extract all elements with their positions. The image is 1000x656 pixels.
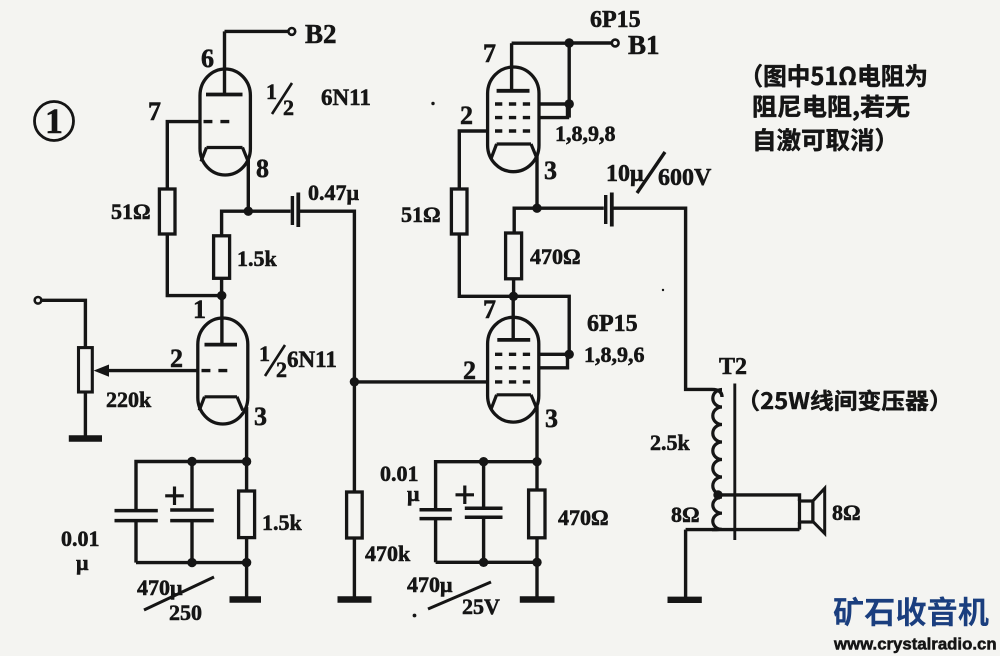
wire cathode rail V4 — [436, 462, 537, 508]
capacitor C3 470u electrolytic — [170, 462, 214, 563]
svg-text:470μ: 470μ — [407, 572, 453, 597]
label T2 — [719, 354, 747, 380]
wire bottom rail V4 network — [436, 561, 537, 564]
wire node A to C1 — [248, 209, 290, 212]
wire T2 bottom to ground G5 — [684, 530, 687, 597]
annotation chinese line3 — [756, 128, 883, 151]
svg-text:25V: 25V — [462, 594, 500, 619]
svg-text:3: 3 — [254, 402, 267, 431]
V4 pin 2 — [463, 356, 476, 385]
svg-text:2: 2 — [283, 95, 294, 120]
input terminal — [35, 297, 42, 304]
svg-text:6N11: 6N11 — [287, 347, 337, 372]
wire cathode rail V2 — [136, 462, 247, 510]
wire node C to C5 — [537, 206, 604, 209]
scan speckles — [413, 102, 665, 618]
V4 pin 3 lead — [535, 406, 538, 462]
svg-text:0.01: 0.01 — [61, 526, 100, 551]
label B1 — [628, 30, 660, 60]
VR1 wiper arrow — [95, 365, 198, 376]
transformer T2 core — [733, 384, 736, 541]
svg-text:2: 2 — [170, 344, 183, 373]
tube V2 1/2 6N11 envelope — [198, 318, 248, 424]
wire V3 pin2 to R4 — [459, 131, 487, 188]
figure number circle 1 — [35, 102, 74, 141]
svg-text:7: 7 — [483, 295, 496, 324]
label 1/2 6N11 for V2 — [259, 341, 337, 382]
V4 pin 3 — [545, 404, 558, 433]
label C7 470u/25V — [407, 572, 500, 619]
V4 screen grid row1 — [495, 353, 568, 356]
label R2 1.5k — [237, 246, 278, 271]
watermark logo chinese — [834, 596, 989, 626]
annotation chinese line2 — [754, 95, 910, 121]
label R1 51ohm — [111, 199, 151, 224]
V3 control grid row3 (pin 2) — [495, 129, 530, 132]
label 6P15 for V4 — [587, 311, 638, 337]
V2 cathode — [199, 397, 243, 411]
V1 cathode — [201, 148, 248, 162]
svg-text:470Ω: 470Ω — [530, 244, 581, 269]
capacitor C2 0.01u — [115, 511, 158, 563]
label R7 470ohm — [558, 505, 609, 530]
tube V4 6P15 envelope — [488, 317, 539, 422]
svg-text:B1: B1 — [628, 30, 660, 60]
wire plate V1 to B2 — [225, 30, 290, 33]
tube V1 1/2 6N11 envelope — [200, 69, 250, 175]
V3 pin 3 lead — [535, 155, 538, 208]
capacitor C6 0.01u — [420, 510, 452, 563]
terminal B2 — [288, 28, 295, 35]
resistor R4 51ohm — [451, 189, 467, 234]
svg-text:1.5k: 1.5k — [262, 510, 303, 535]
svg-text:2: 2 — [276, 357, 287, 382]
wire coupling to V4 grid — [354, 380, 487, 383]
wire VR1 to ground — [84, 392, 87, 436]
resistor R1 51ohm — [159, 189, 175, 234]
wire T2 bottom rail — [686, 522, 800, 530]
V4 screen grid row2 — [495, 354, 568, 368]
wire R2 bottom to node B — [220, 278, 223, 295]
svg-text:1: 1 — [45, 101, 63, 141]
V2 pin 2 — [170, 344, 183, 373]
svg-text:10μ: 10μ — [606, 161, 644, 187]
svg-text:3: 3 — [545, 404, 558, 433]
potentiometer VR1 220k body — [79, 348, 93, 392]
V2 pin 3 — [254, 402, 267, 431]
C7 plus sign — [456, 486, 475, 505]
V3 pin 3 — [544, 156, 557, 185]
wire node D to V4 plate rail — [513, 296, 569, 354]
resistor R7 470ohm — [529, 462, 545, 563]
wire V3 cathode node C rail — [514, 208, 537, 233]
svg-text:600V: 600V — [658, 165, 712, 191]
V3 screen grid row1 — [495, 102, 568, 105]
V3 pin 2 — [460, 101, 473, 130]
label V4 pins 1,8,9,6 — [584, 342, 645, 367]
label R3 1.5k — [262, 510, 303, 535]
svg-text:1: 1 — [266, 79, 277, 104]
label VR1 220k — [106, 387, 152, 412]
label R4 51ohm — [401, 202, 441, 227]
wire node to terminal B1 — [569, 41, 612, 44]
V4 control grid row3 (pin 2) — [495, 380, 530, 383]
V1 pin 8 lead — [247, 158, 250, 209]
svg-text:6P15: 6P15 — [590, 7, 641, 33]
wire R4 bottom to lower rail — [459, 234, 513, 296]
wire input to VR1 — [42, 300, 86, 347]
capacitor C1 0.47u — [292, 193, 298, 228]
label R5 470ohm — [530, 244, 581, 269]
wire node B to V2 plate — [220, 296, 223, 344]
wire V3 plate to B1 node — [512, 42, 570, 45]
V1 pin 8 — [256, 154, 269, 183]
annotation chinese T2 (25W line transformer) — [752, 390, 937, 412]
svg-text:7: 7 — [148, 97, 161, 126]
V3 plate — [497, 43, 530, 91]
ground G2 — [230, 596, 262, 602]
watermark url — [833, 635, 997, 654]
label R6 470k — [365, 541, 411, 566]
wire to ground G2 — [245, 563, 248, 597]
label C2 0.01u — [61, 526, 100, 575]
ground G5 — [668, 597, 702, 603]
resistor R3 1.5k — [239, 462, 255, 563]
svg-text:250: 250 — [169, 600, 202, 625]
svg-text:1: 1 — [259, 341, 270, 366]
label C5 10u/600V — [606, 152, 712, 193]
label C3 470u/250 — [137, 575, 214, 625]
V2 pin 3 lead — [245, 407, 248, 462]
wire T2 tap to speaker — [718, 495, 800, 501]
wire B1 node down to screen — [568, 43, 571, 117]
V3 cathode — [491, 144, 537, 158]
V4 pin 7 — [483, 295, 496, 324]
wire C5 to T2 — [614, 208, 713, 389]
svg-text:6: 6 — [201, 44, 214, 73]
capacitor C7 470u electrolytic — [465, 462, 503, 563]
label 1/2 6N11 for V1 — [266, 79, 371, 120]
svg-text:51Ω: 51Ω — [111, 199, 151, 224]
svg-text:470Ω: 470Ω — [558, 505, 609, 530]
label 8ohm speaker — [832, 500, 861, 525]
ground G3 — [338, 596, 372, 602]
svg-text:8: 8 — [256, 154, 269, 183]
svg-text:470k: 470k — [365, 541, 411, 566]
V1 grid (pin 7) — [204, 120, 230, 123]
svg-text:8Ω: 8Ω — [671, 502, 700, 527]
label T2 2.5k — [650, 430, 691, 455]
svg-text:2.5k: 2.5k — [650, 430, 691, 455]
svg-text:1,8,9,8: 1,8,9,8 — [555, 121, 616, 146]
label 8ohm tap — [671, 502, 700, 527]
wire to ground G4 — [535, 562, 538, 597]
wire C1 to coupling line — [300, 211, 354, 382]
svg-text:51Ω: 51Ω — [401, 202, 441, 227]
V2 plate — [205, 343, 238, 347]
C3 plus sign — [165, 487, 184, 506]
svg-text:T2: T2 — [719, 354, 747, 380]
V2 pin 1 — [193, 295, 206, 324]
svg-text:3: 3 — [544, 156, 557, 185]
transformer T2 primary winding 2.5k — [712, 389, 722, 494]
svg-text:2: 2 — [460, 101, 473, 130]
resistor R5 470ohm — [506, 233, 522, 279]
ground VR1 — [69, 435, 102, 441]
svg-text:1,8,9,6: 1,8,9,6 — [584, 342, 645, 367]
V4 plate — [497, 296, 530, 340]
speaker driver box — [800, 501, 813, 522]
resistor R2 1.5k — [214, 236, 230, 278]
V4 cathode — [491, 395, 537, 409]
V3 screen grid row2 — [495, 104, 568, 118]
label C6 0.01u — [380, 461, 420, 506]
V1 pin 7 — [148, 97, 161, 126]
label C1 0.47u — [308, 180, 360, 205]
terminal B1 — [612, 40, 619, 47]
V1 pin 6 — [201, 44, 214, 73]
label V3 pins 1,8,9,8 — [555, 121, 616, 146]
wire bottom rail V2 network — [136, 561, 247, 564]
resistor R6 470k — [347, 382, 363, 597]
transformer T2 winding 8ohm section — [712, 497, 722, 530]
label 6P15 top — [590, 7, 641, 33]
svg-text:μ: μ — [407, 481, 420, 506]
tube V3 6P15 envelope — [488, 67, 539, 172]
wire R5 bottom to node D — [512, 279, 515, 297]
V1 plate — [206, 31, 243, 94]
figure number text — [45, 101, 63, 141]
svg-text:6P15: 6P15 — [587, 311, 638, 337]
annotation chinese line1 (damping resistor note) — [755, 64, 926, 88]
svg-text:μ: μ — [76, 550, 89, 575]
wire V1 grid pin7 to R1 — [167, 122, 200, 188]
svg-text:2: 2 — [463, 356, 476, 385]
svg-text:220k: 220k — [106, 387, 152, 412]
V3 pin 7 — [483, 39, 496, 68]
svg-text:8Ω: 8Ω — [832, 500, 861, 525]
svg-text:1: 1 — [193, 295, 206, 324]
capacitor C5 10u/600V — [606, 193, 612, 227]
svg-text:6N11: 6N11 — [321, 85, 371, 110]
svg-text:1.5k: 1.5k — [237, 246, 278, 271]
speaker cone — [813, 488, 825, 533]
wire R1 bottom to node B — [167, 234, 221, 296]
wire R2 top to node A — [222, 211, 246, 236]
svg-text:www.crystalradio.cn: www.crystalradio.cn — [833, 635, 997, 654]
svg-text:B2: B2 — [305, 19, 337, 49]
svg-text:7: 7 — [483, 39, 496, 68]
V2 grid (pin 2) — [202, 369, 228, 372]
ground G4 — [520, 596, 555, 602]
svg-text:0.47μ: 0.47μ — [308, 180, 360, 205]
label B2 — [305, 19, 337, 49]
